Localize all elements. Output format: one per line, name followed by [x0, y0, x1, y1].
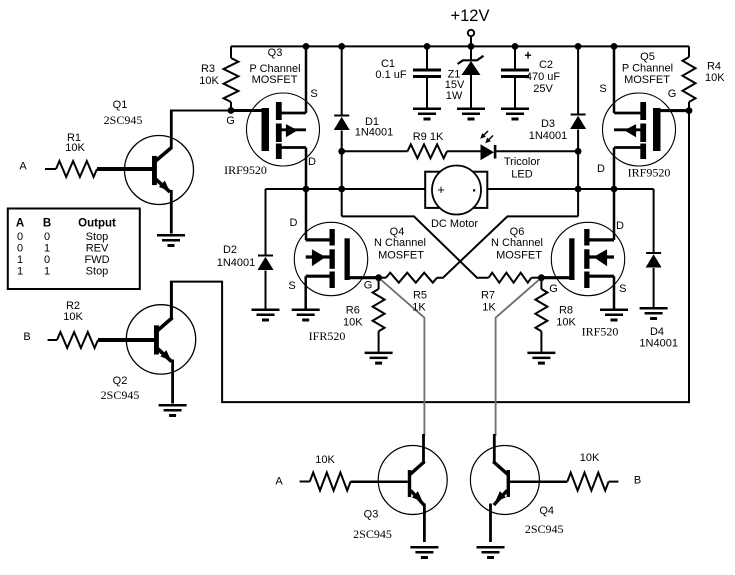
svg-text:10K: 10K — [580, 452, 600, 464]
svg-text:FWD: FWD — [84, 254, 109, 266]
svg-text:MOSFET: MOSFET — [496, 250, 542, 262]
svg-text:1N4001: 1N4001 — [217, 257, 256, 269]
svg-text:Output: Output — [78, 218, 116, 230]
svg-text:10K: 10K — [199, 75, 219, 87]
svg-text:D: D — [597, 163, 605, 175]
svg-text:R6: R6 — [346, 305, 360, 317]
svg-text:R9 1K: R9 1K — [413, 131, 444, 143]
svg-text:1N4001: 1N4001 — [355, 127, 394, 139]
svg-text:1W: 1W — [446, 90, 463, 102]
svg-text:Tricolor: Tricolor — [504, 156, 541, 168]
svg-text:Q1: Q1 — [113, 99, 128, 111]
svg-text:Q4: Q4 — [539, 505, 554, 517]
svg-text:Stop: Stop — [86, 231, 109, 243]
svg-text:0: 0 — [17, 231, 23, 243]
svg-text:10K: 10K — [343, 317, 363, 329]
svg-text:D3: D3 — [541, 118, 555, 130]
svg-text:S: S — [288, 280, 295, 292]
svg-text:G: G — [364, 280, 373, 292]
svg-text:1N4001: 1N4001 — [529, 130, 568, 142]
svg-text:IRF9520: IRF9520 — [628, 166, 671, 180]
svg-text:2SC945: 2SC945 — [353, 527, 392, 541]
svg-text:S: S — [599, 83, 606, 95]
svg-text:1: 1 — [17, 254, 23, 266]
svg-text:G: G — [226, 115, 235, 127]
svg-text:Q3: Q3 — [364, 509, 379, 521]
svg-text:2SC945: 2SC945 — [104, 113, 143, 127]
svg-text:0: 0 — [44, 231, 50, 243]
svg-text:Q5: Q5 — [640, 51, 655, 63]
svg-text:B: B — [43, 218, 51, 230]
svg-text:R8: R8 — [559, 305, 573, 317]
svg-text:1: 1 — [44, 266, 50, 278]
svg-text:10K: 10K — [63, 311, 83, 323]
svg-text:1K: 1K — [482, 302, 496, 314]
svg-text:1: 1 — [44, 243, 50, 255]
svg-text:R3: R3 — [201, 63, 215, 75]
svg-text:DC Motor: DC Motor — [431, 218, 478, 230]
svg-text:1K: 1K — [412, 302, 426, 314]
svg-text:10K: 10K — [65, 142, 85, 154]
svg-text:S: S — [619, 283, 626, 295]
svg-text:Q2: Q2 — [113, 375, 128, 387]
svg-text:10K: 10K — [705, 72, 725, 84]
svg-text:LED: LED — [511, 169, 532, 181]
svg-text:1: 1 — [17, 266, 23, 278]
svg-text:Stop: Stop — [86, 266, 109, 278]
svg-text:R5: R5 — [413, 290, 427, 302]
svg-text:MOSFET: MOSFET — [624, 74, 670, 86]
svg-text:G: G — [549, 283, 558, 295]
svg-text:+: + — [524, 49, 531, 63]
svg-text:D: D — [616, 220, 624, 232]
svg-text:MOSFET: MOSFET — [252, 74, 298, 86]
svg-text:0: 0 — [44, 254, 50, 266]
svg-text:2SC945: 2SC945 — [525, 522, 564, 536]
svg-text:2SC945: 2SC945 — [101, 388, 140, 402]
svg-text:MOSFET: MOSFET — [378, 250, 424, 262]
svg-text:D: D — [308, 156, 316, 168]
svg-text:+12V: +12V — [451, 7, 490, 25]
svg-text:A: A — [19, 161, 27, 173]
svg-text:R4: R4 — [707, 61, 721, 73]
svg-text:R7: R7 — [481, 290, 495, 302]
svg-text:C2: C2 — [539, 59, 553, 71]
svg-text:B: B — [23, 331, 30, 343]
svg-text:P Channel: P Channel — [622, 63, 673, 75]
svg-text:D4: D4 — [650, 326, 664, 338]
svg-text:D: D — [290, 217, 298, 229]
svg-text:0.1 uF: 0.1 uF — [375, 69, 406, 81]
svg-text:10K: 10K — [556, 317, 576, 329]
svg-text:N Channel: N Channel — [374, 237, 426, 249]
svg-text:S: S — [310, 88, 317, 100]
svg-text:A: A — [275, 476, 283, 488]
svg-text:IRF9520: IRF9520 — [224, 163, 267, 177]
svg-text:+: + — [437, 182, 445, 197]
svg-text:D2: D2 — [223, 244, 237, 256]
svg-text:B: B — [634, 475, 641, 487]
svg-text:N Channel: N Channel — [491, 237, 543, 249]
svg-text:A: A — [16, 218, 24, 230]
svg-text:1N4001: 1N4001 — [639, 338, 678, 350]
svg-text:REV: REV — [86, 243, 109, 255]
svg-text:0: 0 — [17, 243, 23, 255]
svg-text:25V: 25V — [533, 83, 553, 95]
svg-text:10K: 10K — [315, 454, 335, 466]
svg-text:Q3: Q3 — [268, 47, 283, 59]
svg-text:IRF520: IRF520 — [582, 325, 619, 339]
svg-text:470 uF: 470 uF — [526, 71, 561, 83]
svg-text:IFR520: IFR520 — [309, 329, 346, 343]
svg-text:G: G — [668, 88, 677, 100]
